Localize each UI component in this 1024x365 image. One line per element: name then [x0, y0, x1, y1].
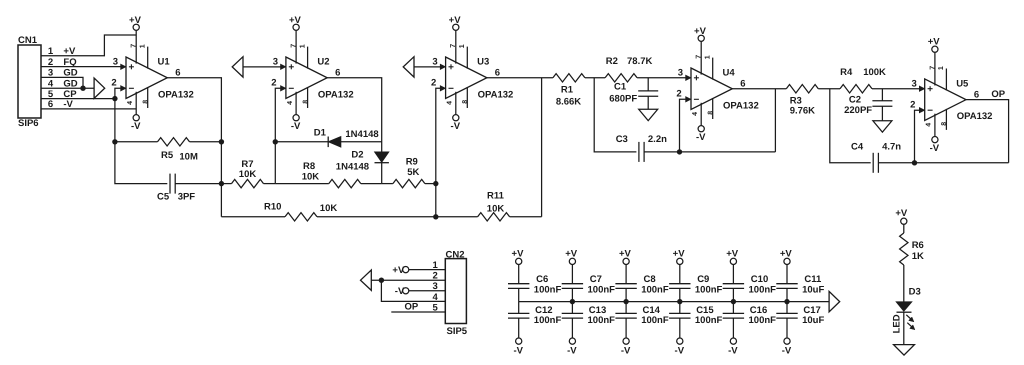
resistor R9	[382, 156, 436, 188]
svg-text:C1: C1	[614, 81, 627, 92]
U2 pin 7 line	[295, 30, 297, 63]
svg-text:R1: R1	[561, 84, 574, 95]
svg-text:10uF: 10uF	[802, 315, 824, 326]
svg-text:5K: 5K	[407, 167, 419, 178]
junction C3 to U4 pin2	[677, 149, 682, 154]
net tag at bank bus right	[829, 291, 840, 311]
svg-text:R2: R2	[606, 56, 618, 67]
U3 pin 7 line	[455, 30, 457, 63]
junction C5 right	[219, 181, 224, 186]
svg-text:2.2n: 2.2n	[648, 134, 667, 145]
U5 pin 2 arrow	[919, 108, 924, 113]
resistor R2	[605, 56, 686, 82]
net tag to U3 input	[403, 57, 440, 77]
U2 +V power flag	[293, 24, 299, 30]
capacitor C13	[562, 302, 615, 338]
svg-text:-V: -V	[696, 132, 706, 143]
wire CP node down to feedback	[114, 99, 116, 142]
bank +V power flag 1	[512, 249, 525, 265]
svg-text:-V: -V	[291, 121, 301, 132]
wire U2 output down	[327, 78, 382, 152]
wire C3 node to U4 pin2	[680, 99, 686, 152]
connector CN2	[433, 250, 468, 337]
U1 body	[126, 57, 167, 99]
bank -V power flag 3	[621, 338, 631, 357]
svg-text:C15: C15	[696, 305, 714, 316]
svg-text:6: 6	[335, 68, 340, 79]
svg-text:C13: C13	[589, 305, 606, 316]
svg-text:OPA132: OPA132	[723, 100, 759, 111]
wire U3 pin2 feedback vertical	[436, 88, 440, 217]
U4 - input marker	[694, 98, 699, 100]
svg-text:1: 1	[938, 66, 945, 70]
junction feedback left node	[112, 139, 117, 144]
svg-text:6: 6	[175, 68, 180, 79]
capacitor C11	[776, 265, 824, 302]
svg-text:3: 3	[912, 79, 917, 90]
svg-text:1N4148: 1N4148	[345, 129, 378, 140]
svg-text:7: 7	[929, 66, 936, 70]
wire CN1 pin1 +V to U1 pin7	[41, 35, 136, 56]
svg-text:OP: OP	[991, 89, 1005, 100]
svg-text:7: 7	[291, 44, 298, 48]
U5 pin 3 arrow	[919, 86, 924, 91]
bank -V power flag 5	[728, 338, 738, 357]
op-amp U4	[676, 26, 758, 143]
svg-text:8: 8	[142, 100, 149, 104]
svg-text:C5: C5	[157, 191, 170, 202]
svg-text:100nF: 100nF	[749, 284, 777, 295]
svg-text:-V: -V	[395, 286, 405, 297]
LED branch +V power flag	[895, 208, 908, 224]
svg-text:OP: OP	[405, 301, 419, 312]
svg-text:6: 6	[974, 90, 979, 101]
svg-text:10K: 10K	[302, 171, 320, 182]
junction CN1 GD tie	[80, 86, 85, 91]
svg-text:7: 7	[450, 44, 457, 48]
svg-text:2: 2	[676, 89, 681, 100]
svg-text:4: 4	[287, 101, 294, 105]
svg-text:680PF: 680PF	[609, 94, 637, 105]
U4 pin 7 line	[700, 41, 702, 74]
svg-text:10K: 10K	[320, 203, 338, 214]
capacitor C8	[615, 265, 668, 302]
resistor R7	[221, 159, 275, 188]
svg-text:4: 4	[447, 101, 454, 105]
wire R3 R4 node down to C4	[830, 89, 871, 163]
U5 + input marker	[928, 88, 933, 90]
svg-text:1K: 1K	[912, 251, 924, 262]
svg-text:100nF: 100nF	[534, 315, 562, 326]
svg-text:3PF: 3PF	[178, 191, 196, 202]
U2 pin 2 arrow	[281, 86, 286, 91]
svg-text:100nF: 100nF	[588, 284, 616, 295]
svg-text:R11: R11	[487, 191, 505, 202]
svg-text:R9: R9	[406, 156, 418, 167]
junction bus node 6	[784, 299, 789, 304]
svg-text:+V: +V	[129, 15, 142, 26]
op-amp U5	[910, 37, 992, 154]
U5 body	[925, 79, 966, 121]
bank +V power flag 4	[673, 249, 686, 265]
CN2 -V power flag	[395, 286, 446, 297]
U1 + input marker	[129, 66, 134, 68]
capacitor C6	[508, 265, 561, 302]
svg-text:7: 7	[131, 44, 138, 48]
LED light arrow 1	[906, 315, 911, 319]
svg-text:+V: +V	[392, 265, 405, 276]
svg-text:100nF: 100nF	[695, 315, 723, 326]
svg-text:8: 8	[707, 111, 714, 115]
svg-text:2: 2	[910, 99, 915, 110]
U2 pin 1 line	[307, 47, 309, 69]
junction CN2 tag node	[379, 278, 384, 283]
svg-text:OPA132: OPA132	[318, 89, 354, 100]
capacitor C4	[851, 141, 1009, 173]
U2 + input marker	[289, 66, 294, 68]
LED light arrow 2	[907, 323, 912, 327]
svg-text:10K: 10K	[487, 204, 505, 215]
U5 - input marker	[928, 109, 933, 111]
capacitor C15	[669, 302, 722, 338]
svg-text:-V: -V	[451, 121, 461, 132]
svg-text:10M: 10M	[179, 152, 198, 163]
resistor R11	[436, 191, 542, 222]
bank -V power flag 6	[782, 338, 792, 357]
wire CN1 pin3 GD down to pin4	[41, 77, 83, 88]
svg-text:U2: U2	[317, 57, 329, 68]
svg-text:8: 8	[462, 100, 469, 104]
clock tag arrow	[94, 78, 105, 98]
svg-text:100nF: 100nF	[588, 315, 616, 326]
wire R11 up to main row	[541, 78, 543, 217]
resistor R5	[115, 138, 221, 163]
svg-text:C12: C12	[535, 305, 552, 316]
U3 pin 8 line	[466, 87, 468, 108]
capacitor C5	[157, 174, 221, 203]
U3 - input marker	[449, 87, 454, 89]
svg-text:7: 7	[696, 55, 703, 59]
junction bus node 3	[623, 299, 628, 304]
wire CP node to U1 pin2	[115, 88, 121, 98]
U2 pin 3 arrow	[281, 64, 286, 69]
U3 pin 1 line	[466, 47, 468, 69]
capacitor C1	[609, 78, 658, 110]
U1 pin 7 line	[135, 30, 137, 63]
svg-text:C3: C3	[616, 134, 628, 145]
svg-text:OPA132: OPA132	[957, 111, 993, 122]
wire tag node down to CN2 pin 4	[381, 280, 445, 301]
svg-text:4: 4	[926, 123, 933, 127]
svg-text:C4: C4	[851, 141, 864, 152]
U1 pin 1 line	[147, 47, 149, 69]
svg-text:OPA132: OPA132	[158, 89, 194, 100]
op-amp U2	[271, 15, 353, 132]
svg-text:-V: -V	[621, 346, 631, 357]
U5 pin 1 line	[945, 69, 947, 91]
U5 pin 7 line	[934, 52, 936, 85]
ground below LED	[894, 345, 915, 356]
svg-text:100nF: 100nF	[534, 284, 562, 295]
U4 +V power flag	[698, 35, 704, 41]
junction D1 left	[273, 139, 278, 144]
svg-text:3: 3	[273, 57, 278, 68]
capacitor C7	[562, 265, 615, 302]
svg-text:78.7K: 78.7K	[627, 56, 652, 67]
svg-text:+V: +V	[289, 15, 302, 26]
diode D2 1N4148	[336, 150, 389, 184]
U5 +V power flag	[932, 46, 938, 52]
bank +V power flag 6	[780, 249, 793, 265]
svg-text:10uF: 10uF	[802, 284, 824, 295]
svg-text:D1: D1	[314, 128, 327, 139]
U5 -V power flag	[932, 137, 938, 143]
U1 pin 3 arrow	[121, 64, 126, 69]
svg-text:10K: 10K	[239, 169, 257, 180]
svg-text:R6: R6	[912, 240, 924, 251]
U3 body	[446, 57, 487, 99]
svg-text:+V: +V	[449, 15, 462, 26]
U2 body	[286, 57, 327, 99]
wire U2 pin2 feedback vertical	[275, 88, 280, 183]
resistor R4	[840, 67, 919, 93]
svg-text:1: 1	[459, 44, 466, 48]
svg-text:3: 3	[432, 57, 437, 68]
U3 + input marker	[449, 66, 454, 68]
svg-text:6: 6	[495, 68, 500, 79]
svg-text:-V: -V	[131, 121, 141, 132]
U2 - input marker	[289, 87, 294, 89]
svg-text:1: 1	[704, 55, 711, 59]
net tag to U2 input	[232, 57, 280, 77]
svg-text:R4: R4	[840, 67, 853, 78]
svg-text:-V: -V	[567, 346, 577, 357]
resistor R3	[786, 85, 840, 117]
op-amp U3	[431, 15, 513, 132]
svg-text:100nF: 100nF	[641, 284, 669, 295]
svg-text:SIP6: SIP6	[18, 118, 39, 129]
U1 pin 4 line	[135, 92, 137, 115]
LED D3	[891, 286, 920, 344]
svg-text:+V: +V	[694, 26, 707, 37]
svg-text:C16: C16	[750, 305, 767, 316]
svg-text:U4: U4	[723, 68, 736, 79]
wire C3 right up to U4 output	[774, 89, 776, 152]
U5 pin 8 line	[945, 109, 947, 130]
svg-text:6: 6	[740, 79, 745, 90]
bank -V power flag 2	[567, 338, 577, 357]
wire CN1 pin5 CP	[41, 98, 115, 100]
U3 pin 4 line	[455, 92, 457, 115]
op-amp U1	[111, 15, 193, 132]
capacitor C12	[508, 302, 561, 338]
wire OP to CN2 pin 5	[391, 311, 445, 313]
svg-text:LED: LED	[891, 314, 902, 333]
capacitor C17	[776, 302, 824, 338]
svg-text:R8: R8	[303, 161, 315, 172]
svg-text:-V: -V	[675, 346, 685, 357]
svg-text:CN2: CN2	[446, 250, 465, 261]
U2 -V power flag	[293, 115, 299, 121]
svg-text:4.7n: 4.7n	[882, 141, 901, 152]
capacitor C14	[615, 302, 668, 338]
svg-text:C14: C14	[643, 305, 661, 316]
svg-text:-V: -V	[930, 143, 940, 154]
svg-text:-V: -V	[513, 346, 523, 357]
svg-text:-V: -V	[728, 346, 738, 357]
capacitor C10	[723, 265, 776, 302]
svg-text:2: 2	[271, 78, 276, 89]
capacitor C9	[669, 265, 722, 302]
svg-text:1N4148: 1N4148	[336, 162, 369, 173]
svg-text:100nF: 100nF	[641, 315, 669, 326]
bank +V power flag 2	[565, 249, 578, 265]
svg-text:+V: +V	[895, 208, 908, 219]
capacitor C3	[616, 134, 776, 162]
svg-text:2: 2	[111, 78, 116, 89]
svg-text:R5: R5	[161, 150, 174, 161]
U3 -V power flag	[453, 115, 459, 121]
U1 - input marker	[129, 87, 134, 89]
capacitor bank bus wire	[519, 301, 829, 303]
svg-text:100nF: 100nF	[749, 315, 777, 326]
U4 + input marker	[694, 77, 699, 79]
svg-text:8.66K: 8.66K	[556, 97, 581, 108]
CN2 +V power flag	[392, 265, 445, 276]
svg-text:9.76K: 9.76K	[790, 106, 815, 117]
U1 +V power flag	[133, 24, 139, 30]
U1 -V power flag	[133, 115, 139, 121]
connector CN1	[18, 35, 78, 129]
svg-text:CN1: CN1	[18, 35, 38, 46]
U1 pin 8 line	[147, 87, 149, 108]
diode D1 1N4148	[275, 128, 381, 148]
wire left feedback down to C5	[115, 142, 167, 184]
svg-text:D2: D2	[351, 150, 363, 161]
junction R9 right	[433, 181, 438, 186]
junction R10 right	[433, 214, 438, 219]
junction CP node	[112, 96, 117, 101]
svg-text:2: 2	[431, 78, 436, 89]
U4 -V power flag	[698, 126, 704, 132]
U4 pin 2 arrow	[686, 97, 691, 102]
U3 pin 3 arrow	[440, 64, 445, 69]
svg-text:8: 8	[302, 100, 309, 104]
ground below C1	[639, 109, 658, 120]
wire CN1 pin2 FQ to U1 pin3	[41, 66, 121, 68]
junction R5 right	[219, 139, 224, 144]
svg-text:U3: U3	[477, 57, 489, 68]
wire CN1 pin6 -V to U1 pin4	[41, 108, 136, 110]
svg-text:C2: C2	[849, 94, 861, 105]
svg-text:U5: U5	[956, 79, 969, 90]
wire U4 output	[732, 88, 786, 90]
bank -V power flag 4	[675, 338, 685, 357]
U1 pin 2 arrow	[121, 86, 126, 91]
resistor R1	[553, 74, 605, 108]
wire CN1 pin4 GD to clock tag	[41, 87, 94, 89]
junction C4 to U5 pin2	[912, 160, 917, 165]
U4 body	[691, 68, 732, 110]
svg-text:SIP5: SIP5	[447, 326, 468, 337]
svg-text:R10: R10	[264, 202, 281, 213]
net tag at CN2 pin 2	[361, 270, 372, 290]
svg-text:D3: D3	[909, 286, 921, 297]
U4 pin 1 line	[712, 58, 714, 80]
junction bus node 4	[677, 299, 682, 304]
svg-text:4: 4	[127, 101, 134, 105]
svg-text:1: 1	[299, 44, 306, 48]
wire U5 output feedback	[966, 100, 1009, 163]
capacitor C16	[723, 302, 776, 338]
U4 pin 4 line	[700, 103, 702, 126]
svg-text:4: 4	[692, 112, 699, 116]
wire U3 output	[487, 77, 553, 79]
svg-text:+V: +V	[928, 37, 941, 48]
wire R1 R2 node down to C3	[594, 78, 636, 152]
U3 pin 2 arrow	[440, 86, 445, 91]
bank +V power flag 3	[619, 249, 632, 265]
svg-text:C17: C17	[803, 305, 820, 316]
wire U1 output down to R10	[167, 78, 221, 217]
svg-text:100nF: 100nF	[695, 284, 723, 295]
U5 pin 4 line	[934, 114, 936, 137]
U2 pin 8 line	[307, 87, 309, 108]
ground below C2	[873, 121, 892, 132]
resistor R8	[275, 161, 381, 188]
U4 pin 8 line	[712, 98, 714, 119]
svg-text:U1: U1	[158, 57, 171, 68]
resistor R6	[900, 224, 924, 301]
resistor R10	[221, 202, 435, 222]
svg-text:1: 1	[139, 44, 146, 48]
svg-text:OPA132: OPA132	[478, 89, 514, 100]
U3 +V power flag	[453, 24, 459, 30]
U4 pin 3 arrow	[686, 75, 691, 80]
svg-text:8: 8	[941, 122, 948, 126]
svg-text:100K: 100K	[863, 67, 886, 78]
wire tag to CN2 pin 2	[371, 279, 445, 281]
svg-text:-V: -V	[782, 346, 792, 357]
junction bus node 2	[570, 299, 575, 304]
U2 pin 4 line	[295, 92, 297, 115]
wire C4 node to U5 pin2	[915, 110, 920, 163]
svg-text:3: 3	[678, 68, 683, 79]
junction bus node 5	[731, 299, 736, 304]
bank -V power flag 1	[513, 338, 523, 357]
capacitor C2	[844, 89, 892, 121]
svg-text:3: 3	[113, 57, 118, 68]
svg-text:220PF: 220PF	[844, 105, 872, 116]
bank +V power flag 5	[726, 249, 739, 265]
